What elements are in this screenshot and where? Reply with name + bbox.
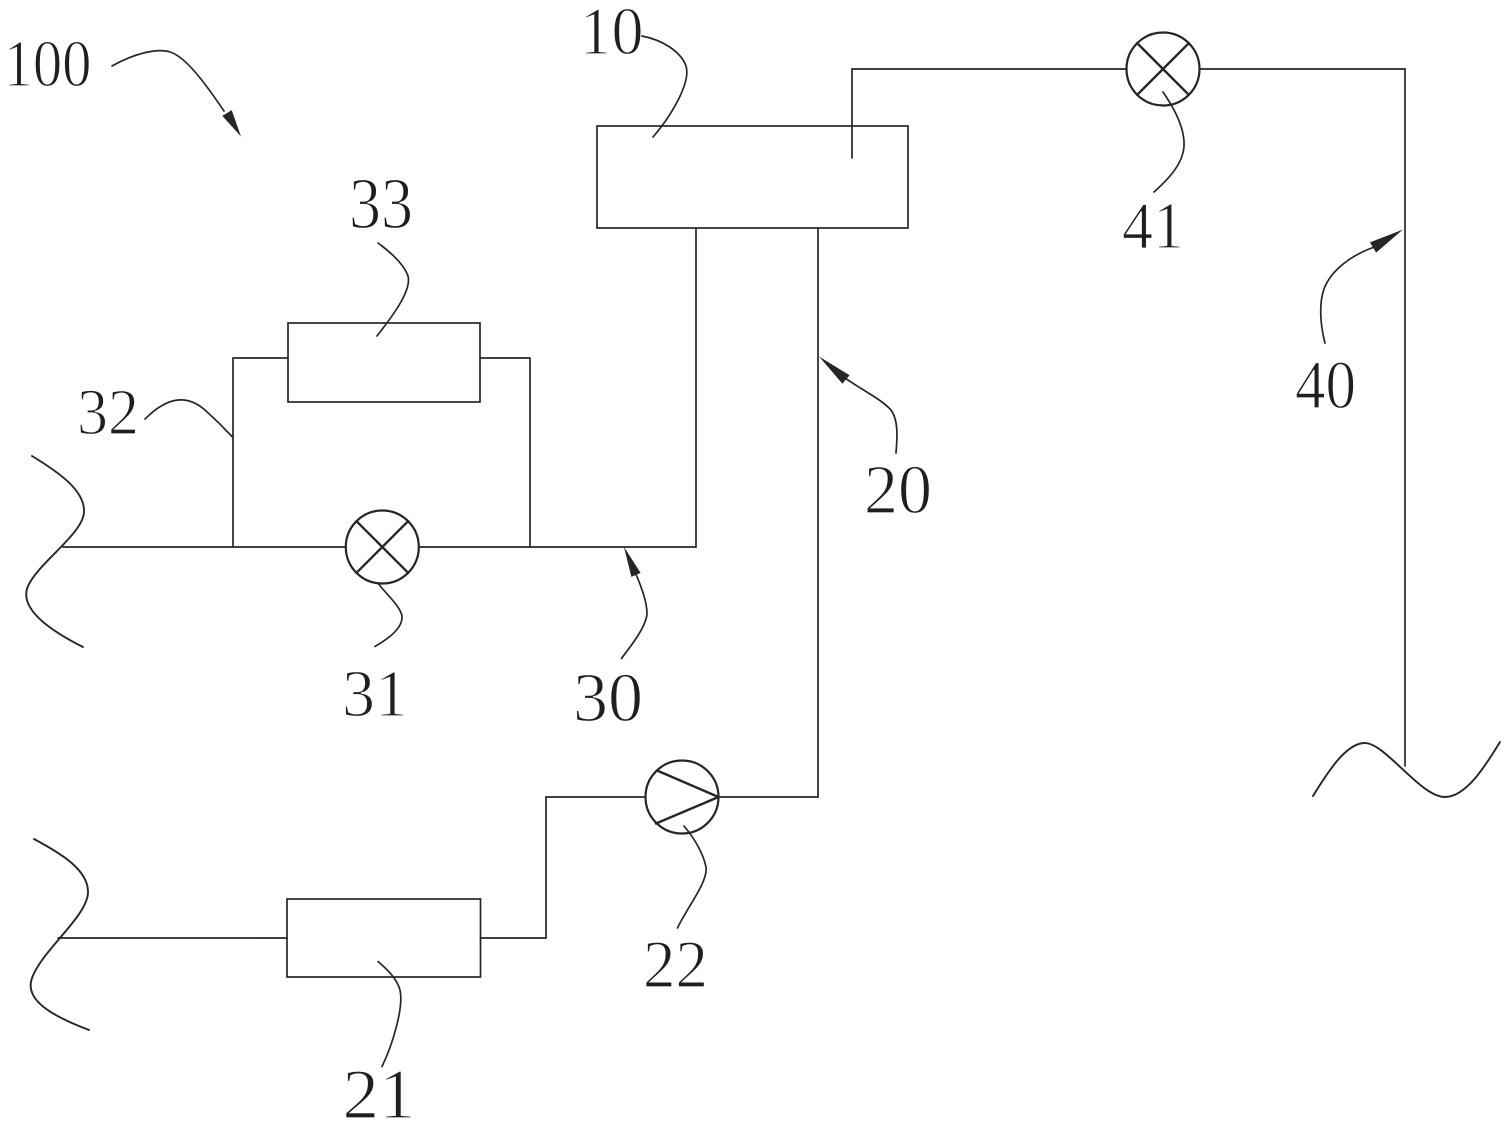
svg-text:32: 32 <box>77 376 139 449</box>
leader for 41 <box>1154 92 1184 192</box>
svg-text:22: 22 <box>643 926 708 1002</box>
wire: pump 22 to evaporator 21 <box>481 797 646 938</box>
arrow 30 <box>621 547 647 659</box>
svg-text:40: 40 <box>1295 347 1356 423</box>
valve 41 <box>1127 33 1200 106</box>
svg-text:30: 30 <box>573 660 643 737</box>
wire: valve 41 to right drop line 40 <box>1200 69 1406 766</box>
wire: box 10 right outlet down to pump 22 <box>719 228 819 797</box>
svg-text:41: 41 <box>1122 189 1184 263</box>
svg-text:31: 31 <box>342 657 408 731</box>
wire 30 left segment <box>63 546 346 548</box>
arrow 20 <box>819 357 897 454</box>
leader for 10 <box>642 36 687 137</box>
wire: box 10 top outlet to valve 41 <box>852 69 1127 158</box>
leader arrow for 40 <box>1321 230 1403 344</box>
bypass loop 32 right leg <box>480 358 530 547</box>
wire: box 10 left outlet down to line 30 <box>695 228 697 547</box>
wire: evaporator 21 to left break <box>58 937 287 939</box>
wire 30 right segment <box>419 546 696 548</box>
leader for 33 <box>377 243 408 336</box>
leader for 32 <box>145 400 233 438</box>
break symbol on line 40 <box>1313 742 1500 797</box>
leader for 22 <box>678 826 707 928</box>
heat exchanger 10 <box>597 126 908 228</box>
svg-text:10: 10 <box>580 0 644 69</box>
svg-text:20: 20 <box>864 452 932 529</box>
heater 33 <box>288 323 480 402</box>
svg-text:100: 100 <box>4 27 92 101</box>
leader for 21 <box>378 962 401 1067</box>
break symbol on line 30 <box>26 456 84 647</box>
evaporator 21 <box>287 899 481 977</box>
bypass loop 32 left leg <box>233 358 288 547</box>
svg-text:21: 21 <box>343 1056 416 1125</box>
svg-text:33: 33 <box>349 163 413 244</box>
break symbol on line 21 <box>31 839 89 1030</box>
valve 31 <box>346 511 419 584</box>
leader for 31 <box>375 585 402 647</box>
leader arrow for 100 <box>112 51 241 137</box>
pump 22 <box>646 761 719 834</box>
